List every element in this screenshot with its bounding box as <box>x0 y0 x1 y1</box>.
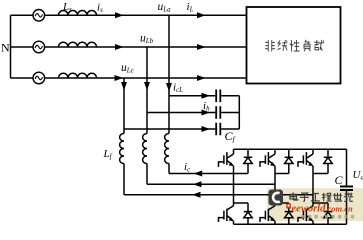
wire cap feed 3 <box>124 128 215 130</box>
wire leg1 bottom junction <box>234 202 249 204</box>
transistor V2 top leg2 <box>260 149 275 173</box>
capacitor Cf 2 plates <box>216 106 220 119</box>
diode D6 bottom leg3 <box>324 203 332 224</box>
inductor phase b <box>59 42 97 47</box>
wire leg3 mid vertical <box>312 174 314 206</box>
wire branch a vertical <box>168 15 170 133</box>
diode D1 top leg1 <box>244 149 252 173</box>
node N bus <box>10 15 12 78</box>
nonlinear load box <box>247 7 341 84</box>
wire phase a <box>11 14 247 16</box>
inductor phase c <box>59 73 97 78</box>
wire leg1 mid vertical <box>233 174 235 206</box>
arrow cap3 <box>202 126 211 132</box>
wire dc top rail <box>234 148 347 150</box>
wire leg2 junction top <box>275 173 289 175</box>
capacitor Cf 3 plates <box>216 123 220 136</box>
capacitor Cf 1 plates <box>216 90 220 103</box>
wire branch b vertical <box>146 47 148 134</box>
wire branch c vertical <box>123 78 125 134</box>
transistor V6 bottom leg3 <box>298 206 313 225</box>
transistor V4 bottom leg1 <box>219 206 234 225</box>
arrow is phase a <box>115 12 124 18</box>
watermark text 电子工程世界 <box>290 193 353 202</box>
wire leg3 bottom junction <box>313 202 328 204</box>
arrow branch b <box>144 82 150 91</box>
arrow ih cap2 <box>202 110 211 116</box>
arrow phase b <box>115 44 124 50</box>
arrow ic line1 <box>194 171 203 177</box>
arrow icL branch a <box>166 83 172 92</box>
wire leg3 junction top <box>313 173 328 175</box>
watermark small tagline <box>302 215 355 218</box>
transistor V1 top leg1 <box>219 149 234 173</box>
inductor Lf coil a-leg <box>120 134 124 164</box>
arrow line3 <box>192 192 201 198</box>
arrow phase c load <box>197 75 206 81</box>
arrow iL phase a <box>197 12 206 18</box>
svg-text:N: N <box>1 41 10 55</box>
arrow branch c <box>121 82 127 91</box>
wire cap feed 1 <box>169 95 215 97</box>
ac source phase c <box>33 72 45 84</box>
diode D4 bottom leg1 <box>244 203 252 224</box>
svg-text:C: C <box>335 173 344 187</box>
arrow phase c <box>115 75 124 81</box>
inductor Ls phase a <box>59 11 97 16</box>
inductor Lf coil c-leg <box>165 134 169 164</box>
transistor V5 bottom leg2 <box>260 206 275 225</box>
watermark red square <box>286 204 291 209</box>
wire dc bottom rail <box>234 223 347 225</box>
diode D2 top leg2 <box>285 149 293 173</box>
wire dc right link <box>346 149 348 224</box>
wire cap feed 2 <box>147 112 215 114</box>
diode D5 bottom leg2 <box>285 203 293 224</box>
wire output line 3 <box>124 164 313 195</box>
diode D3 top leg3 <box>324 149 332 173</box>
watermark logo <box>269 190 284 206</box>
arrow phase b load <box>197 44 206 50</box>
wire phase b <box>11 46 247 48</box>
wire leg2 mid vertical <box>274 174 276 206</box>
transistor V3 top leg3 <box>298 149 313 173</box>
wire phase c <box>11 77 247 79</box>
arrow cap1 <box>202 93 211 99</box>
ac source phase b <box>33 41 45 53</box>
ac source phase a <box>33 10 45 22</box>
arrow line2 <box>193 181 202 187</box>
wire output line 2 <box>147 164 275 185</box>
svg-text:eeworld.com.cn: eeworld.com.cn <box>292 204 353 215</box>
watermark background <box>267 188 363 221</box>
wire output line 1 <box>169 164 248 174</box>
inductor Lf coil b-leg <box>143 134 147 164</box>
capacitor C dc plates <box>340 187 353 191</box>
wire leg2 bottom junction <box>275 202 289 204</box>
nonlinear load text 非线性负载 <box>265 40 324 52</box>
wire cap right bus <box>221 96 239 129</box>
